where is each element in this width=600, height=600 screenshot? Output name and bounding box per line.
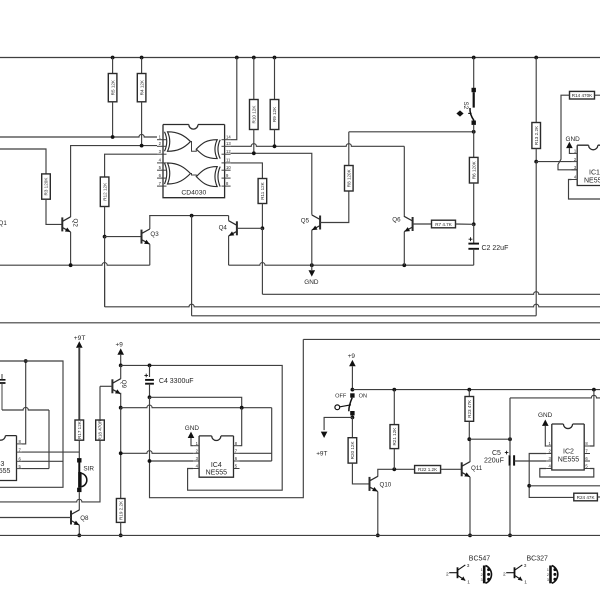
wire Q10 collector riser [378, 469, 415, 476]
svg-text:2: 2 [547, 573, 549, 577]
pin 4 of IC2 [546, 468, 552, 470]
svg-text:Q4: Q4 [219, 224, 228, 231]
transistor Q5 (mirrored) [319, 216, 321, 230]
pin 5 of IC4 [234, 468, 240, 470]
svg-text:CD4030: CD4030 [181, 190, 206, 197]
wire right riser to IC2 pin8 [590, 390, 594, 446]
svg-text:R23 47K: R23 47K [467, 399, 472, 418]
wire Q4 emitter down to rail [228, 236, 230, 265]
svg-text:NE555: NE555 [206, 470, 228, 477]
XOR gate B of CD4030 (mirrored) [218, 140, 220, 159]
IC U2 IC1 NE555 body (cropped at right edge) [577, 145, 600, 185]
resistor R23 47K [465, 397, 474, 422]
pin 7 of IC4 [234, 452, 240, 454]
pin 4 of IC4 [193, 468, 199, 470]
svg-text:IC4: IC4 [211, 462, 222, 469]
pinout diagram BC547 TO-92 package [483, 566, 486, 584]
svg-text:Q8: Q8 [80, 515, 89, 522]
resistor R5 12K [108, 74, 117, 102]
wire C5 right plate to IC2 pin3 [515, 460, 547, 462]
wire R24 right lead [597, 496, 600, 498]
pin 4 of IC1 [572, 179, 578, 181]
wire IC4 pin6/pin7 riser to Vcc line [271, 408, 273, 461]
wire R9 top lead [274, 58, 276, 100]
pin 14 of CD4030 [222, 139, 231, 141]
wire R11 bottom lead [261, 204, 263, 229]
wire IC4 pin6 connection [240, 460, 272, 462]
IC U4 IC4 NE555 body [199, 436, 233, 477]
wire Q9 emitter down [120, 393, 122, 408]
node R4 to pin2 junction [140, 144, 144, 148]
node junction on top bus [235, 56, 239, 60]
resistor R11 12K [258, 179, 267, 204]
XOR gate A of CD4030 [165, 132, 167, 152]
pinout diagram BC327 TO-92 package [549, 566, 552, 584]
pin 2 of CD4030 [157, 145, 167, 147]
transistor Q9 [120, 365, 122, 373]
wire net A line (Q4 base net to right edge) [262, 293, 264, 295]
wire Q3 collector riser [149, 216, 151, 229]
resistor R14 470K [570, 91, 595, 99]
svg-text:+9: +9 [116, 341, 124, 348]
resistor R13 2.2K [532, 123, 541, 149]
wire feedback line to right edge [529, 485, 600, 487]
node IC3 pin8 net junction [24, 359, 28, 363]
resistor R20 12K [348, 438, 357, 463]
wire R8 top lead to S2 line [348, 132, 350, 166]
wire C5 upper riser and box line [510, 395, 600, 439]
wire Q6 base to R7 [413, 223, 432, 225]
node pin2 junction on R19 riser [119, 451, 123, 455]
wire R20 bottom lead to Q10 base [352, 463, 369, 484]
wire R9 bottom lead [274, 130, 276, 147]
switch S2 [473, 58, 475, 89]
resistor R24 47K [574, 493, 598, 501]
svg-text:GND: GND [538, 412, 553, 419]
node R13/IC1 pin2 junction [534, 160, 538, 164]
pin 3 of IC2 [546, 460, 552, 462]
wire Q9 collector riser [120, 373, 122, 379]
svg-text:Q3: Q3 [150, 231, 159, 238]
node Q3 base junction [103, 235, 107, 239]
IC U5 IC2 NE555 body [552, 424, 584, 470]
svg-text:R11 12K: R11 12K [260, 181, 265, 199]
wire R5 top lead [112, 58, 114, 74]
wire big box top line [303, 338, 600, 340]
node junction on top bus [472, 56, 476, 60]
svg-text:R12 12K: R12 12K [102, 182, 107, 201]
svg-text:R19 2.2K: R19 2.2K [118, 500, 123, 520]
pin 7 of IC3 [17, 451, 23, 453]
pin 8 of IC4 [234, 445, 240, 447]
node right riser junction [592, 388, 596, 392]
svg-text:10: 10 [226, 165, 231, 170]
wire speaker bottom to Q8 collector [78, 492, 80, 510]
node Q10 emitter junction on rail [376, 534, 380, 538]
resistor R6 120K [469, 157, 478, 183]
svg-text:GND: GND [185, 425, 200, 432]
svg-text:IC3: IC3 [0, 461, 5, 468]
wire Q2 emitter to ground rail [70, 232, 72, 265]
pin 6 of IC4 [234, 460, 240, 462]
svg-text:ON: ON [359, 393, 367, 399]
transistor Q2 [61, 217, 63, 231]
resistor R8 120K [345, 166, 354, 192]
node junction on top bus [273, 56, 277, 60]
wire Q10 emitter to rail [377, 492, 379, 536]
node switch bottom junction [351, 416, 355, 420]
pin 2 of IC4 [193, 452, 199, 454]
pin 1 of IC1 [572, 152, 578, 154]
node Q10/R21/R22 junction [392, 467, 396, 471]
speaker SIR [77, 458, 81, 462]
node +9 junction [119, 364, 123, 368]
wire ground rail right segment [229, 263, 474, 266]
wire R10 bottom lead [253, 130, 255, 154]
wire gate C output to gate D [191, 174, 197, 177]
node junction on top bus [111, 56, 115, 60]
svg-text:NE555: NE555 [0, 468, 11, 475]
wire Q5 emitter to rail [311, 230, 313, 265]
svg-text:R14 470K: R14 470K [572, 93, 593, 98]
wire S2 feed line [349, 131, 474, 133]
wire IC4 pin7 connection [240, 452, 272, 454]
node R19 junction on rail [119, 534, 123, 538]
node feedback junction [527, 484, 531, 488]
wire IC4 pin3 line to C4 net [150, 460, 194, 462]
svg-text:R22 1.2K: R22 1.2K [418, 467, 438, 472]
resistor R18 470R [99, 386, 101, 420]
capacitor C4 3300uF [149, 365, 151, 377]
wire IC4 pin2 line to R19 net [121, 451, 193, 454]
node Q11 emitter junction on rail [468, 534, 472, 538]
node IC4 pin8 junction [240, 406, 244, 410]
svg-text:NE555: NE555 [558, 456, 580, 463]
wire R3 top lead from left edge [0, 149, 46, 174]
node collector line junction [190, 214, 194, 218]
pin 1 of CD4030 [157, 139, 167, 141]
wire R4 bottom lead [141, 102, 143, 146]
svg-text:R21 12K: R21 12K [392, 427, 397, 446]
svg-text:C4 3300uF: C4 3300uF [159, 378, 194, 385]
wire R5 bottom lead [112, 102, 114, 137]
svg-text:11: 11 [226, 158, 231, 163]
wire R18 bottom lead loop to left [0, 440, 100, 502]
wire IC3 pin6 line [22, 460, 63, 462]
pin 7 of CD4030 [157, 185, 167, 187]
wire Q8 base line from left edge [0, 517, 71, 519]
wire IC1 pin4 loop under IC [569, 180, 600, 200]
svg-text:+9: +9 [348, 353, 356, 360]
svg-text:R4 12K: R4 12K [139, 79, 144, 95]
wire top +V bus [0, 57, 600, 59]
wire R13 net vertical down to lower section [535, 162, 537, 316]
wire Q4 collector to line [228, 216, 230, 221]
wire trigger line to C5 [469, 438, 510, 440]
svg-text:R17 12K: R17 12K [77, 420, 82, 439]
svg-text:OFF: OFF [335, 393, 347, 399]
svg-text:R18 470R: R18 470R [98, 419, 103, 440]
wire CD4030 pin3 to R12 [105, 154, 157, 177]
svg-text:IC2: IC2 [563, 449, 574, 456]
svg-text:GND: GND [566, 136, 581, 143]
transistor Q4 (mirrored) [236, 221, 238, 235]
svg-text:C2 22uF: C2 22uF [482, 245, 509, 252]
wire Q11 collector riser [469, 439, 471, 462]
wire Q11 emitter to rail [469, 477, 471, 535]
svg-text:2: 2 [503, 571, 506, 577]
svg-text:1: 1 [524, 580, 527, 586]
svg-text:R6 120K: R6 120K [471, 160, 476, 179]
svg-text:+9T: +9T [316, 450, 327, 457]
transistor Q6 (mirrored) [412, 217, 414, 231]
svg-text:Q5: Q5 [301, 218, 310, 225]
wire R21 top lead [393, 390, 395, 425]
wire net C line (R13 net lower run) [192, 315, 537, 317]
wire +9 switched line [352, 389, 600, 391]
node R5 to pin1 junction [111, 135, 115, 139]
pin 9 of CD4030 [222, 177, 231, 179]
svg-text:Q2: Q2 [72, 219, 79, 228]
wire R19 bottom lead [120, 522, 122, 535]
ground symbol GND below rail [311, 265, 313, 270]
svg-text:R8 120K: R8 120K [347, 168, 352, 187]
wire IC1 pin2 to R13 junction [536, 161, 571, 163]
node Q8 emitter junction on rail [77, 534, 81, 538]
XOR gate C of CD4030 [165, 163, 167, 184]
resistor R17 12K [75, 420, 84, 440]
svg-text:R3 120K: R3 120K [44, 177, 49, 196]
IC U1 CD4030 body [163, 125, 225, 198]
wire Q6 emitter to rail [403, 232, 405, 266]
wire C2 bottom lead to rail corner [473, 249, 475, 265]
pin 13 of CD4030 [222, 145, 231, 147]
wire Q3/Q4 collector line [149, 215, 228, 217]
wire R14 right lead [595, 94, 600, 96]
wire Vcc line L2 from Q9 emitter [121, 405, 272, 408]
pin 2 of IC1 [572, 161, 578, 163]
wire R14 left lead down to IC1 pin3 [558, 95, 577, 170]
wire CD4030 pin13 line to Q6 collector [231, 144, 405, 147]
wire R22 right lead to Q11 base [441, 468, 462, 470]
transistor Q8 [70, 511, 72, 525]
pin 8 of IC3 [17, 443, 23, 445]
node C5 top junction [508, 437, 512, 441]
wire net B line (R12 net to right edge) [104, 237, 106, 307]
wire C1 net to IC3 pin5 [2, 407, 49, 410]
svg-text:+9T: +9T [74, 335, 86, 342]
node Q9 emitter junction [119, 406, 123, 410]
svg-text:NE555: NE555 [584, 178, 600, 185]
wire IC4 pin8 riser [240, 408, 242, 446]
wire R17 bottom lead to speaker [78, 440, 80, 458]
pin 6 of IC2 [584, 460, 590, 462]
wire IC2 pin2 net down to R24 [529, 454, 574, 498]
transistor Q10 [369, 477, 371, 491]
pin 3 of CD4030 [157, 153, 167, 155]
wire CD4030 pin12 line to Q5 collector [231, 153, 312, 215]
svg-text:S2: S2 [462, 102, 469, 110]
svg-text:Q11: Q11 [471, 465, 483, 472]
svg-text:Q1: Q1 [0, 220, 7, 227]
svg-text:2: 2 [481, 573, 483, 577]
wire R6 bottom lead [473, 183, 475, 224]
wire pin14 riser from bus [231, 58, 237, 140]
wire Q3/Q4 collector net riser [191, 216, 193, 316]
node C5 junction on rail [508, 534, 512, 538]
wire IC3 upper net [0, 361, 63, 487]
svg-text:Q6: Q6 [392, 217, 401, 224]
pin 2 of IC2 [546, 453, 552, 455]
wire long bus line [0, 322, 600, 324]
pin 8 of CD4030 [222, 185, 231, 187]
node S2 bottom junction [472, 130, 476, 134]
node Q6 emitter junction on rail [402, 263, 406, 267]
wire C5 left plate down to rail [509, 466, 511, 536]
transistor Q3 [141, 230, 143, 244]
transistor Q11 [461, 462, 463, 476]
svg-text:SIR: SIR [83, 465, 94, 472]
svg-text:C5: C5 [492, 450, 501, 457]
capacitor C5 220uF [509, 439, 511, 455]
wire gate A output to gate B [191, 142, 197, 152]
svg-text:Q10: Q10 [380, 482, 392, 489]
power tap +9T right [324, 417, 352, 430]
node C4 top junction [148, 364, 152, 368]
node junction on top bus [534, 56, 538, 60]
wire R21 bottom lead [393, 449, 395, 470]
svg-text:R10 12K: R10 12K [252, 105, 257, 124]
pin 5 of IC2 [584, 468, 590, 470]
svg-text:GND: GND [304, 279, 319, 286]
resistor R3 120K [42, 174, 51, 199]
pin 8 of IC2 [584, 445, 590, 447]
node junction on top bus [252, 56, 256, 60]
resistor R9 12K [270, 100, 279, 130]
wire Q3 base lead [105, 236, 142, 238]
wire Q3 emitter to rail [149, 244, 151, 265]
wire Q9 base lead [100, 385, 112, 387]
pin 5 of CD4030 [157, 169, 167, 171]
resistor R21 12K [390, 425, 399, 449]
svg-text:BC547: BC547 [469, 556, 491, 563]
resistor R10 12K [250, 100, 259, 130]
svg-text:R13 2.2K: R13 2.2K [534, 125, 539, 145]
node R6/R7/C2 junction [472, 222, 476, 226]
wire Q9 emitter net down to R19 and IC4 pin3 [120, 408, 122, 499]
wire Q8 emitter to rail [78, 525, 80, 535]
node R21 riser junction [392, 388, 396, 392]
svg-text:R20 12K: R20 12K [350, 441, 355, 460]
svg-text:1: 1 [481, 568, 483, 572]
wire R23 top lead [468, 390, 470, 397]
node Q4 base junction [261, 226, 265, 230]
svg-text:3: 3 [524, 563, 527, 569]
wire ground rail left segment [0, 263, 150, 266]
wire R23 bottom lead [468, 421, 470, 439]
svg-text:3: 3 [467, 563, 470, 569]
wire R13 top lead [535, 58, 537, 123]
wire IC2 pin4-pin5 loop under IC [540, 469, 594, 478]
wire Vcc branch line L1 [150, 397, 242, 407]
pin 6 of IC3 [17, 460, 23, 462]
wire R4 top lead [141, 58, 143, 74]
wire R12 bottom lead to Q3 base [104, 207, 106, 237]
svg-text:3: 3 [481, 578, 483, 582]
node Q2 emitter junction [69, 263, 73, 267]
svg-text:BC327: BC327 [527, 556, 549, 563]
pin 4 of CD4030 [157, 162, 167, 164]
svg-text:14: 14 [226, 135, 231, 140]
resistor R4 12K [137, 74, 146, 102]
wire IC3 pin8 riser to node [22, 361, 26, 444]
XOR gate D of CD4030 (mirrored) [218, 167, 220, 187]
pin 12 of CD4030 [222, 153, 231, 155]
node R9 junction on pin13 line [273, 144, 277, 148]
wire Q2 collector to CD4030 pin2 line [71, 146, 157, 217]
resistor R12 12K [100, 177, 109, 207]
pin 5 of IC3 [17, 468, 23, 470]
node C4 net junction [148, 395, 152, 399]
pin 1 of IC4 [193, 445, 199, 447]
wire IC3 pin7 line to speaker net [22, 451, 79, 453]
pin 3 of IC4 [193, 460, 199, 462]
svg-text:Q9: Q9 [120, 380, 127, 389]
wire C4 net down to bottom loop [150, 339, 304, 497]
pin 11 of CD4030 [222, 162, 231, 164]
resistor R19 2.2K [116, 499, 125, 523]
wire R6 top lead [473, 132, 475, 158]
svg-text:R9 12K: R9 12K [272, 106, 277, 122]
svg-text:R7 4.7K: R7 4.7K [435, 222, 453, 227]
wire R3 bottom lead to Q2 base [46, 199, 62, 224]
svg-text:1: 1 [467, 580, 470, 586]
node switch top junction [351, 388, 355, 392]
node Q5 emitter junction on rail [310, 263, 314, 267]
wire R7 right lead [456, 223, 474, 225]
node pin3 junction on C4 net [148, 459, 152, 463]
svg-text:220uF: 220uF [484, 458, 504, 465]
svg-text:1: 1 [547, 568, 549, 572]
svg-text:13: 13 [226, 141, 231, 146]
wire Q5 base to R8 [320, 191, 349, 223]
pin 6 of CD4030 [157, 177, 167, 179]
wire R11 net crossing rail down to lower line [261, 228, 263, 294]
capacitor C1 (cropped at left edge) [0, 380, 6, 383]
wire +9 line to IC4 reset loop [121, 365, 283, 490]
svg-text:R5 12K: R5 12K [110, 79, 115, 95]
pin 7 of IC2 [584, 453, 590, 455]
svg-text:12: 12 [226, 149, 231, 154]
pin 10 of CD4030 [222, 169, 231, 171]
node R10 junction on pin12 line [252, 151, 256, 155]
wire C4 bottom lead [149, 384, 151, 398]
node R23 riser junction [467, 388, 471, 392]
node R23/Q11 junction [467, 437, 471, 441]
svg-text:R24 47K: R24 47K [577, 495, 596, 500]
capacitor C2 22uF [473, 224, 475, 243]
svg-text:IC1: IC1 [589, 170, 600, 177]
wire bottom ground rail [0, 534, 600, 536]
resistor R7 4.7K [432, 220, 456, 228]
IC U3 IC3 NE555 body (cropped at left edge) [0, 436, 17, 481]
wire CD4030 pin11 to R11 [231, 163, 263, 179]
svg-text:3: 3 [547, 578, 549, 582]
wire R20 top lead [351, 417, 353, 437]
svg-text:2: 2 [446, 571, 449, 577]
node junction on top bus [140, 56, 144, 60]
wire Q4 base lead [237, 227, 263, 229]
